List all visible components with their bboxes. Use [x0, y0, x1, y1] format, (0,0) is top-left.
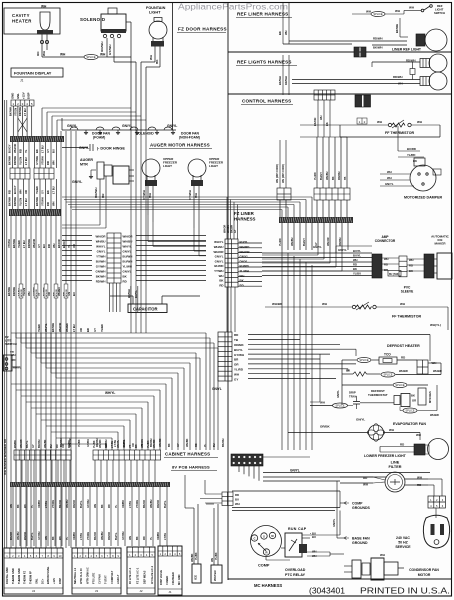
svg-text:BU/RD: BU/RD	[240, 264, 249, 268]
svg-text:BK: BK	[411, 394, 415, 398]
svg-text:PTC RELAY: PTC RELAY	[285, 573, 306, 577]
svg-text:WH: WH	[384, 257, 389, 261]
svg-text:GN/YL: GN/YL	[122, 124, 132, 128]
wires: CN1 to CN2 verticals	[226, 287, 228, 332]
svg-text:LT BU: LT BU	[41, 145, 45, 153]
svg-text:WH: WH	[387, 176, 392, 180]
wire: divider y=52 REF LINER section	[228, 51, 452, 53]
svg-text:WH/OR: WH/OR	[96, 234, 107, 238]
svg-text:WH: WH	[320, 401, 325, 405]
svg-text:GNL: GNL	[34, 578, 38, 584]
svg-text:BK/WH: BK/WH	[8, 197, 12, 206]
wires: bundle corners into bar1	[42, 107, 131, 109]
svg-text:YL: YL	[115, 504, 118, 508]
svg-text:MTR: MTR	[80, 163, 88, 167]
svg-text:BU: BU	[50, 444, 53, 448]
pvc sleeve connector	[399, 256, 407, 277]
svg-text:DN/YL: DN/YL	[240, 259, 249, 263]
heater element	[40, 12, 50, 30]
svg-text:8V PCB HARNESS: 8V PCB HARNESS	[172, 465, 210, 470]
svg-text:REF LIGHTS HARNESS: REF LIGHTS HARNESS	[237, 60, 292, 65]
wires: to amp connector	[262, 252, 372, 254]
svg-text:WH (RIP CORD): WH (RIP CORD)	[276, 164, 279, 183]
wires: CNA left runs	[62, 235, 92, 237]
svg-text:WH: WH	[211, 558, 214, 562]
svg-text:VT/GN: VT/GN	[13, 108, 17, 116]
svg-text:WH: WH	[141, 444, 144, 448]
svg-text:WH: WH	[52, 243, 56, 248]
svg-text:GN/YL: GN/YL	[313, 245, 322, 249]
compressor COMP	[251, 526, 282, 557]
svg-text:WATER: WATER	[213, 570, 217, 581]
svg-text:LT BU: LT BU	[72, 324, 76, 332]
svg-text:J2: J2	[139, 589, 143, 593]
svg-text:+12V: +12V	[52, 578, 56, 584]
wire: heater leads	[41, 35, 43, 58]
svg-text:WH/OR: WH/OR	[20, 439, 23, 448]
svg-text:BK/OR: BK/OR	[94, 532, 97, 540]
svg-text:BU/GY: BU/GY	[8, 144, 12, 153]
svg-text:RD: RD	[401, 356, 405, 360]
svg-text:LIGHT: LIGHT	[149, 11, 161, 15]
wires: door fan ground bus	[62, 129, 176, 131]
svg-text:SLEEVE: SLEEVE	[401, 290, 414, 294]
connector block CNA pins	[107, 233, 121, 283]
svg-text:TCO: TCO	[384, 353, 391, 357]
svg-text:(NON-FOAM): (NON-FOAM)	[179, 136, 200, 140]
svg-text:WH/OR: WH/OR	[214, 250, 225, 254]
svg-text:GN/YL: GN/YL	[290, 469, 300, 473]
wires: CN1 right side runs	[238, 242, 262, 244]
svg-text:EVAPORATOR FAN: EVAPORATOR FAN	[393, 422, 426, 426]
svg-text:YL/WH: YL/WH	[240, 269, 249, 273]
wires: mesh vertical drops	[205, 333, 207, 450]
svg-text:YL/WH: YL/WH	[123, 264, 132, 268]
svg-text:S: S	[263, 534, 265, 538]
svg-text:BK/WH: BK/WH	[7, 287, 11, 296]
svg-text:OR/BK: OR/BK	[157, 532, 160, 540]
svg-text:T-STAT: T-STAT	[104, 575, 108, 584]
svg-text:BU/YL: BU/YL	[80, 500, 83, 508]
svg-text:RD: RD	[19, 149, 23, 153]
svg-text:BASE FAN: BASE FAN	[352, 537, 370, 541]
svg-text:AUGER MOTOR HARNESS: AUGER MOTOR HARNESS	[150, 143, 210, 148]
svg-text:GN/YL: GN/YL	[332, 518, 336, 527]
drip tray capacitor	[353, 401, 360, 403]
svg-text:RD: RD	[59, 536, 62, 540]
svg-text:WH: WH	[240, 274, 245, 278]
svg-text:WH/OR: WH/OR	[58, 323, 62, 332]
svg-text:DIGITAL GND: DIGITAL GND	[5, 567, 9, 584]
svg-text:BU/YL: BU/YL	[164, 500, 167, 508]
svg-text:RD: RD	[36, 51, 40, 56]
svg-text:M: M	[271, 534, 273, 538]
svg-text:OR/BK: OR/BK	[122, 500, 125, 508]
svg-text:OR: OR	[412, 399, 416, 403]
defrost thermostat component	[394, 396, 400, 405]
defrost connector pair	[417, 360, 428, 374]
svg-text:CABINET HARNESS: CABINET HARNESS	[165, 452, 210, 457]
svg-text:WH/BU: WH/BU	[17, 531, 20, 540]
wire: evap fan right bend	[419, 433, 421, 441]
svg-text:LIGHT: LIGHT	[163, 164, 172, 168]
svg-text:MAKER: MAKER	[435, 242, 447, 246]
svg-text:GNL: GNL	[16, 93, 20, 99]
svg-text:GY: GY	[234, 377, 238, 381]
svg-text:RD: RD	[384, 263, 388, 267]
svg-text:WH/OR: WH/OR	[327, 237, 330, 246]
svg-text:GY/WH: GY/WH	[35, 156, 39, 165]
svg-text:YT/WH: YT/WH	[214, 269, 223, 273]
svg-text:FF THERMISTOR: FF THERMISTOR	[385, 131, 414, 135]
svg-text:TRAY: TRAY	[349, 394, 356, 398]
svg-text:CUBED: CUBED	[165, 576, 169, 585]
pin row group A	[10, 168, 30, 179]
svg-text:RD: RD	[46, 202, 50, 206]
svg-text:WH/BU: WH/BU	[150, 499, 153, 508]
svg-text:BK/WH: BK/WH	[8, 156, 12, 165]
svg-text:YL/RD: YL/RD	[314, 172, 317, 180]
wires: rip cord pair	[279, 140, 281, 188]
svg-text:WH/BU: WH/BU	[291, 237, 294, 246]
svg-text:WH: WH	[284, 30, 288, 35]
svg-text:WH: WH	[10, 504, 13, 508]
svg-text:RD/WH: RD/WH	[96, 279, 106, 283]
wires: drops fan out	[281, 250, 283, 450]
ice maker connector	[424, 254, 434, 278]
svg-text:WH: WH	[416, 433, 421, 437]
svg-text:BK/WH: BK/WH	[395, 24, 399, 33]
svg-text:GN/YL: GN/YL	[215, 259, 224, 263]
wire: main vertical divider x=228	[227, 3, 229, 580]
svg-text:YL/BK: YL/BK	[100, 324, 104, 332]
svg-text:LT BU: LT BU	[52, 186, 56, 194]
svg-text:GY: GY	[177, 443, 180, 447]
motorized damper M2	[410, 165, 436, 191]
svg-text:BU/YL: BU/YL	[31, 532, 34, 540]
svg-text:GN/YL: GN/YL	[67, 124, 77, 128]
svg-text:SERVICE: SERVICE	[395, 545, 411, 549]
wire: divider y=94 REF LIGHTS section	[228, 93, 452, 95]
svg-text:BK/YL: BK/YL	[26, 440, 29, 448]
svg-text:YL: YL	[150, 536, 153, 540]
wires: long runs to service	[232, 490, 340, 492]
svg-text:RD/OR: RD/OR	[73, 500, 76, 508]
svg-text:BK/WH: BK/WH	[96, 274, 106, 278]
splice S4	[381, 372, 395, 377]
wire: left edge pair	[4, 100, 6, 548]
svg-text:WH/RD: WH/RD	[159, 438, 162, 447]
svg-text:BK: BK	[136, 536, 139, 540]
svg-text:RD: RD	[123, 279, 127, 283]
svg-text:DEF MEAS: DEF MEAS	[143, 570, 147, 584]
svg-text:BU: BU	[213, 443, 216, 447]
svg-text:YL: YL	[66, 536, 69, 540]
long connector bar CB3	[279, 217, 353, 223]
svg-text:OR/BK: OR/BK	[234, 343, 245, 347]
svg-text:GN/YL: GN/YL	[385, 182, 394, 186]
svg-text:GN/YL: GN/YL	[240, 255, 249, 259]
svg-text:LT BU: LT BU	[24, 157, 28, 165]
wires: pcb bus drops with labels	[12, 487, 14, 546]
svg-text:RD: RD	[195, 443, 198, 447]
svg-text:CONTROL HARNESS: CONTROL HARNESS	[242, 99, 291, 104]
svg-text:CRUSHED: CRUSHED	[171, 572, 175, 585]
svg-text:WH/BU: WH/BU	[96, 239, 106, 243]
svg-text:RD: RD	[235, 493, 239, 497]
svg-text:LT BU: LT BU	[80, 533, 83, 540]
connector block J2	[127, 547, 155, 594]
svg-text:RD: RD	[46, 161, 50, 165]
wires: bar3 drops with labels	[281, 223, 283, 250]
svg-text:BR: BR	[86, 328, 90, 332]
svg-text:RD: RD	[353, 263, 357, 267]
svg-text:BR/WH: BR/WH	[38, 439, 41, 448]
wire: heater to splice	[42, 56, 84, 58]
splice S3	[357, 358, 371, 363]
svg-text:LOWER FREEZER LIGHT: LOWER FREEZER LIGHT	[364, 454, 407, 458]
svg-text:OR: OR	[72, 244, 76, 248]
svg-text:GY: GY	[234, 229, 237, 233]
svg-text:RD: RD	[108, 504, 111, 508]
wires: CN2 right runs	[248, 334, 430, 336]
wire: vertical x=172 top section	[172, 3, 174, 130]
svg-text:LT BU: LT BU	[24, 198, 28, 206]
svg-text:WH: WH	[149, 54, 153, 60]
wire: divider y=579 above caption	[228, 578, 452, 580]
svg-text:RD: RD	[143, 536, 146, 540]
svg-text:GROUNDS: GROUNDS	[352, 506, 371, 510]
svg-text:GY: GY	[32, 444, 35, 448]
svg-text:SPLICE: SPLICE	[36, 289, 38, 297]
svg-text:RD: RD	[400, 443, 404, 447]
condensor fan motor M3	[352, 560, 361, 578]
svg-text:J1: J1	[20, 79, 24, 83]
svg-text:WH: WH	[60, 53, 66, 57]
svg-text:SPLICE: SPLICE	[359, 358, 368, 362]
svg-text:BK: BK	[46, 190, 50, 194]
svg-text:VT/WH: VT/WH	[52, 500, 55, 508]
wire: amp gn/yl bend	[335, 246, 337, 253]
wires: freezer light leads	[147, 186, 149, 215]
control connector top	[314, 90, 335, 100]
svg-text:FZ LINER: FZ LINER	[234, 211, 255, 216]
svg-text:WH: WH	[387, 170, 392, 174]
wires: ref lights feeds	[372, 61, 420, 63]
grounds on door fan bus	[85, 130, 87, 132]
svg-text:GY/WH: GY/WH	[108, 44, 112, 55]
svg-text:FTS LITE: FTS LITE	[91, 572, 95, 584]
svg-text:|- DOOR HINGE: |- DOOR HINGE	[97, 147, 125, 151]
svg-text:GN/YL: GN/YL	[123, 249, 132, 253]
svg-text:YL/GN: YL/GN	[19, 198, 23, 206]
svg-text:NEUTRAL L1: NEUTRAL L1	[73, 567, 77, 584]
svg-text:OR/BK: OR/BK	[38, 500, 41, 508]
svg-text:YL/RD: YL/RD	[234, 368, 244, 372]
svg-text:YL/BK: YL/BK	[147, 440, 150, 448]
svg-text:MOTOR: MOTOR	[418, 573, 431, 577]
svg-text:BK: BK	[413, 159, 417, 163]
svg-text:GN/YL: GN/YL	[338, 248, 347, 252]
svg-text:WH/YL: WH/YL	[123, 244, 133, 248]
svg-text:WH: WH	[366, 10, 371, 14]
svg-text:PRINTED IN U.S.A.: PRINTED IN U.S.A.	[360, 586, 450, 596]
evaporator fan F1	[369, 425, 384, 440]
svg-text:DEFROST HEATER: DEFROST HEATER	[387, 344, 420, 348]
connector block CN2 pins	[218, 332, 232, 381]
svg-text:GY/BU: GY/BU	[87, 439, 90, 447]
svg-text:YL/GN: YL/GN	[19, 157, 23, 165]
svg-text:GY/WH: GY/WH	[122, 531, 125, 540]
svg-text:GY: GY	[37, 244, 41, 248]
connector pair at y=52	[354, 47, 360, 57]
svg-text:+12V: +12V	[21, 92, 25, 99]
base fan ground	[344, 537, 349, 540]
svg-text:WH/BU: WH/BU	[214, 245, 224, 249]
svg-text:FOUNTAIN: FOUNTAIN	[146, 6, 166, 10]
wires: auger motor leads	[99, 179, 101, 200]
connector block J1	[158, 546, 182, 595]
splice S7	[403, 408, 417, 413]
svg-text:BK: BK	[35, 149, 39, 153]
splice S6	[333, 403, 348, 408]
svg-text:BK/WH: BK/WH	[222, 438, 225, 447]
svg-text:RD: RD	[219, 283, 223, 287]
svg-text:VT/WH: VT/WH	[188, 189, 192, 200]
svg-text:WH/BU: WH/BU	[326, 171, 329, 180]
svg-text:BU: BU	[312, 535, 316, 539]
svg-text:BU/YL: BU/YL	[353, 249, 361, 253]
svg-text:BK/WH: BK/WH	[12, 239, 16, 248]
svg-text:DISP: DISP	[58, 578, 62, 584]
svg-text:OR: OR	[62, 444, 65, 448]
svg-text:BK/OR: BK/OR	[59, 500, 62, 508]
svg-text:BK: BK	[325, 122, 329, 126]
wires: bar1 to pin rows	[12, 142, 14, 168]
svg-text:BR: BR	[135, 444, 138, 448]
small connector 1-2	[357, 118, 367, 124]
comp grounds	[344, 502, 349, 505]
svg-text:CONNECTOR: CONNECTOR	[375, 239, 396, 243]
connector bar CB1	[10, 136, 64, 142]
svg-text:WH/BR: WH/BR	[272, 302, 283, 306]
svg-text:BK/WH: BK/WH	[9, 107, 13, 116]
svg-text:EPROM SGNL: EPROM SGNL	[46, 566, 50, 584]
svg-text:YL: YL	[204, 443, 207, 447]
svg-text:SPLICE: SPLICE	[335, 404, 344, 408]
svg-text:RD/WH: RD/WH	[284, 76, 288, 85]
svg-text:RD: RD	[8, 190, 12, 194]
wires: long horizontals to FZ liner bar	[62, 196, 312, 198]
svg-text:YT/WH: YT/WH	[96, 254, 105, 258]
svg-text:GROUND: GROUND	[352, 541, 368, 545]
svg-text:OR: OR	[24, 190, 28, 194]
ice maker box	[437, 253, 452, 279]
svg-text:WH: WH	[409, 6, 414, 10]
wires: amp links	[382, 257, 399, 259]
wires: mesh risers from horizontals	[10, 332, 12, 334]
svg-text:BK/WH: BK/WH	[373, 46, 382, 50]
svg-text:MC HARNESS: MC HARNESS	[254, 583, 282, 588]
wires: line filter leads	[340, 476, 373, 478]
svg-text:WH/BU: WH/BU	[66, 499, 69, 508]
wires: run cap leads	[302, 534, 340, 536]
splice S1	[84, 55, 98, 60]
svg-text:BK/OR: BK/OR	[57, 239, 61, 248]
FF thermistor T2	[265, 306, 352, 308]
svg-text:YL/BU: YL/BU	[353, 272, 361, 276]
svg-text:J1: J1	[168, 590, 172, 594]
svg-text:SPLICE: SPLICE	[405, 409, 414, 413]
svg-text:RD: RD	[24, 504, 27, 508]
svg-text:WH: WH	[377, 120, 382, 124]
svg-text:GY/WH: GY/WH	[234, 353, 244, 357]
mc connector block	[231, 454, 263, 466]
svg-text:VT/WH: VT/WH	[142, 189, 146, 200]
wires: fountain display to connector bar	[12, 106, 14, 136]
connector block CN1 pins	[225, 239, 238, 287]
wires: mc connector to right	[263, 456, 310, 458]
wires: ref lights verticals	[282, 55, 284, 95]
svg-text:GN/YL: GN/YL	[97, 249, 106, 253]
svg-text:CONDENSOR FAN: CONDENSOR FAN	[409, 568, 439, 572]
svg-text:SPLICE: SPLICE	[21, 289, 23, 297]
svg-text:BU/GY: BU/GY	[13, 185, 17, 194]
svg-text:C: C	[253, 536, 255, 540]
connector block J3	[72, 548, 121, 594]
svg-text:BU/YL: BU/YL	[353, 254, 361, 258]
svg-text:WH: WH	[27, 291, 31, 296]
svg-text:FF THERMISTOR: FF THERMISTOR	[392, 315, 421, 319]
svg-text:WH: WH	[389, 428, 394, 432]
wires: condensor feeds	[344, 565, 352, 567]
svg-text:HEATER: HEATER	[12, 19, 32, 24]
svg-text:RD/WH: RD/WH	[100, 41, 104, 52]
svg-text:J3: J3	[95, 589, 99, 593]
svg-text:WH: WH	[234, 372, 239, 376]
svg-text:VT: VT	[129, 444, 132, 448]
svg-text:RD: RD	[240, 283, 244, 287]
svg-text:BK/OR: BK/OR	[143, 500, 146, 508]
ptc relay blob	[299, 544, 307, 553]
svg-text:THERM FF: THERM FF	[29, 570, 33, 584]
svg-text:FZ DOOR HARNESS: FZ DOOR HARNESS	[178, 27, 227, 32]
svg-text:SWITCH: SWITCH	[5, 342, 17, 346]
svg-text:GY: GY	[46, 149, 50, 153]
svg-text:AppliancePartsPros.com: AppliancePartsPros.com	[178, 3, 288, 12]
svg-text:SPLICE: SPLICE	[56, 289, 58, 297]
svg-text:OR/BK: OR/BK	[320, 425, 331, 429]
svg-text:WH: WH	[52, 160, 56, 165]
connector block J4	[4, 548, 63, 594]
svg-text:J4: J4	[32, 589, 36, 593]
wires: cabinet rows to pcb bus	[15, 460, 17, 482]
wire: fountain light leads	[154, 47, 156, 63]
svg-text:WH/YL: WH/YL	[96, 244, 106, 248]
svg-text:REF LINER HARNESS: REF LINER HARNESS	[237, 12, 288, 17]
svg-text:THERM GND: THERM GND	[11, 568, 15, 584]
svg-text:WH/BK: WH/BK	[186, 438, 189, 447]
svg-text:GN/YL: GN/YL	[79, 146, 89, 150]
pcb bus bar CB4	[10, 482, 170, 487]
wires: auger drops into runs	[99, 200, 101, 225]
svg-text:WH/YL: WH/YL	[214, 240, 224, 244]
svg-text:GN/YL: GN/YL	[356, 418, 365, 422]
connector pair CP3	[277, 188, 291, 200]
svg-text:GY/WH: GY/WH	[87, 499, 90, 508]
wires: CNA bottom drops	[109, 283, 111, 312]
svg-text:RD/BK: RD/BK	[14, 440, 17, 448]
